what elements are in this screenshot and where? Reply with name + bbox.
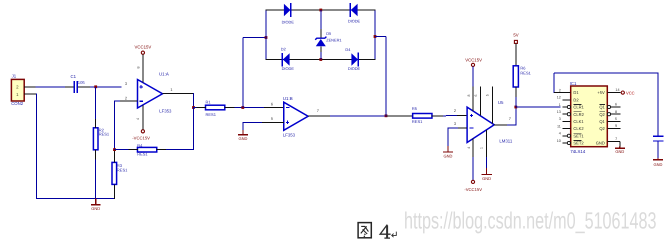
svg-text:3: 3 xyxy=(125,81,127,86)
op-amp U1:B LF353 xyxy=(284,102,308,130)
svg-text:3: 3 xyxy=(559,117,561,121)
resistor R4 xyxy=(137,143,157,157)
svg-text:11: 11 xyxy=(557,124,561,128)
diode D2 xyxy=(281,47,295,71)
pin IC1 left row6 xyxy=(563,128,571,130)
wire bridge left tap xyxy=(243,37,266,39)
svg-text:LF353: LF353 xyxy=(283,132,296,137)
svg-text:LF353: LF353 xyxy=(159,109,172,114)
svg-text:RES1: RES1 xyxy=(206,112,217,117)
wire bridge right vertical xyxy=(385,37,387,117)
pin U5.6 xyxy=(480,86,482,115)
capacitor C1 xyxy=(71,74,86,93)
svg-text:GND: GND xyxy=(654,162,663,167)
svg-text:4: 4 xyxy=(467,147,471,149)
pin U1A.1 out xyxy=(163,92,194,94)
svg-text:U1:A: U1:A xyxy=(159,72,169,77)
wire pin4 down xyxy=(472,157,474,180)
pin U5.5 xyxy=(492,86,494,123)
svg-text:8: 8 xyxy=(136,67,140,69)
pin R2 top xyxy=(95,119,97,128)
pin R1 left xyxy=(197,107,206,109)
diode D4 xyxy=(345,47,360,71)
junction right edge xyxy=(374,35,377,38)
svg-text:8: 8 xyxy=(615,110,617,114)
svg-text:3: 3 xyxy=(454,121,456,126)
op-amp U1:A LF353 xyxy=(138,80,163,109)
svg-text:1: 1 xyxy=(559,103,561,107)
ground GND3 xyxy=(486,168,488,175)
wire top rail xyxy=(266,9,376,11)
svg-text:D1: D1 xyxy=(573,90,579,95)
wire zener vertical xyxy=(320,10,322,30)
svg-text:DIODE: DIODE xyxy=(348,66,361,71)
svg-text:+5V: +5V xyxy=(597,90,605,95)
wire R2 to rail xyxy=(95,160,97,199)
pin IC1 right 5 xyxy=(607,120,620,122)
svg-text:DIODE: DIODE xyxy=(282,66,295,71)
svg-text:DIODE: DIODE xyxy=(348,18,361,23)
svg-text:RES1: RES1 xyxy=(520,71,531,76)
wire bridge left edge xyxy=(265,10,267,61)
wire R4 to node xyxy=(115,149,129,151)
caption figure 4 xyxy=(358,223,396,239)
svg-text:R1: R1 xyxy=(206,99,212,104)
pin U5.1 xyxy=(486,130,488,157)
pin IC1 left row8 xyxy=(563,142,568,144)
svg-text:74LS14: 74LS14 xyxy=(570,149,585,154)
pin IC1 right 9 xyxy=(607,128,620,130)
svg-text:VCC15V: VCC15V xyxy=(135,45,152,50)
svg-text:14: 14 xyxy=(615,88,619,92)
svg-text:GND: GND xyxy=(238,136,247,141)
wire pin1 down xyxy=(486,157,488,168)
svg-text:GND: GND xyxy=(91,206,100,211)
pin U5.3 stub xyxy=(458,127,467,129)
pin C1 left xyxy=(65,86,73,88)
wire bottom rail xyxy=(36,197,114,199)
zener D5 ZENER1 xyxy=(315,31,341,46)
pin IC1.14 xyxy=(607,92,620,94)
ground GND1 xyxy=(95,198,97,204)
pin U1B.5 stub xyxy=(262,121,284,123)
svg-text:SET2: SET2 xyxy=(573,141,584,146)
svg-text:-VCC15V: -VCC15V xyxy=(132,135,150,140)
wire U1B out xyxy=(330,115,387,117)
svg-text:1: 1 xyxy=(170,87,172,92)
ground GND4 xyxy=(447,146,449,152)
svg-text:ZENER1: ZENER1 xyxy=(326,37,341,42)
svg-text:U5: U5 xyxy=(498,100,504,105)
pin zener top xyxy=(320,29,322,38)
pin IC1 left row3 xyxy=(563,106,568,108)
power VCC IC1 xyxy=(621,90,634,95)
svg-text:RES1: RES1 xyxy=(99,132,110,137)
junction top mid xyxy=(319,9,322,12)
pin U1A.4 xyxy=(142,105,144,130)
wire U1A.2 corner xyxy=(115,100,121,102)
wire cap to gnd xyxy=(657,142,659,158)
wire junction to R1 xyxy=(194,107,197,109)
resistor R6 xyxy=(513,65,531,87)
diode D3 xyxy=(348,3,361,23)
pin U1A.8 xyxy=(142,54,144,82)
power VCC15V U1A xyxy=(135,45,152,55)
svg-text:IC1: IC1 xyxy=(570,81,577,86)
svg-text:VCC: VCC xyxy=(626,90,635,95)
capacitor bypass xyxy=(653,136,664,141)
svg-text:5: 5 xyxy=(486,94,490,96)
pin R6 bottom xyxy=(515,87,517,97)
svg-text:D5: D5 xyxy=(326,31,331,36)
comparator U5 LM311 xyxy=(467,107,494,142)
svg-text:Q2: Q2 xyxy=(599,112,605,117)
pin zener bottom xyxy=(320,46,322,53)
ground GND2 xyxy=(242,130,244,135)
pin IC1 left row2 xyxy=(563,99,571,101)
connector J1 CON2 xyxy=(11,74,24,107)
pin R1 right xyxy=(225,107,235,109)
pin IC1 left row1 xyxy=(563,92,571,94)
svg-text:GND: GND xyxy=(615,149,624,154)
svg-text:1: 1 xyxy=(479,147,483,149)
wire R5 to LM311 xyxy=(443,115,457,117)
svg-text:4: 4 xyxy=(136,118,140,120)
wire bridge right edge xyxy=(374,10,376,61)
pin IC1 left row7 xyxy=(563,135,568,137)
pin R5 right xyxy=(432,115,443,117)
junction bridge tap xyxy=(241,106,244,109)
svg-text:2: 2 xyxy=(125,95,127,100)
wire VCC to pin8 xyxy=(472,67,474,87)
wire C1 to U1A pin3 xyxy=(90,86,122,88)
wire feedback left xyxy=(166,149,194,151)
wire zener bottom xyxy=(320,52,322,60)
svg-text:CLR2: CLR2 xyxy=(573,112,584,117)
svg-text:https://blog.csdn.net/m0_51061: https://blog.csdn.net/m0_51061483 xyxy=(404,208,657,234)
pin IC1.7 xyxy=(607,141,620,143)
svg-text:105: 105 xyxy=(78,80,86,85)
pin IC1.2 stub xyxy=(554,92,571,94)
pin J1.2 xyxy=(24,86,36,88)
resistor R1 xyxy=(206,99,225,116)
pin IC1 left row4 xyxy=(563,113,568,115)
svg-text:RES1: RES1 xyxy=(412,119,423,124)
svg-text:J1: J1 xyxy=(12,74,17,79)
junction LM311 out xyxy=(514,106,517,109)
svg-text:CLK2: CLK2 xyxy=(573,126,584,131)
svg-text:R4: R4 xyxy=(137,143,143,148)
svg-text:CLR1: CLR1 xyxy=(573,105,584,110)
svg-text:5: 5 xyxy=(615,117,617,121)
svg-text:RES1: RES1 xyxy=(117,168,128,173)
pin U5.7 out xyxy=(494,124,507,126)
pin R6 top xyxy=(515,44,517,66)
svg-text:C1: C1 xyxy=(71,74,77,79)
power VCC15V U5 xyxy=(465,58,482,67)
svg-text:CLK1: CLK1 xyxy=(573,119,584,124)
wire D1 loop xyxy=(553,73,555,93)
junction input/R2 xyxy=(94,85,97,88)
svg-text:12: 12 xyxy=(557,96,561,100)
pin U5.4 xyxy=(472,139,474,157)
pin R2 bottom xyxy=(95,150,97,160)
resistor R5 xyxy=(412,106,432,124)
svg-text:6: 6 xyxy=(615,103,617,107)
svg-text:GND: GND xyxy=(444,154,453,159)
pin R4 right xyxy=(156,149,166,151)
svg-text:6: 6 xyxy=(271,101,273,106)
junction left edge xyxy=(265,36,268,39)
svg-text:2: 2 xyxy=(559,88,561,92)
svg-text:13: 13 xyxy=(557,110,561,114)
junction U1A out xyxy=(192,106,195,109)
pin IC1 left row5 xyxy=(563,120,571,122)
wire pin3 left xyxy=(448,127,458,129)
svg-text:Q2: Q2 xyxy=(599,126,605,131)
svg-text:R6: R6 xyxy=(520,65,526,70)
power -VCC15V U1A xyxy=(132,130,150,141)
svg-text:7: 7 xyxy=(509,116,511,121)
svg-text:Q1: Q1 xyxy=(599,119,605,124)
pin R5 left xyxy=(387,115,413,117)
svg-text:6: 6 xyxy=(474,94,478,96)
junction bottom mid xyxy=(319,58,322,61)
power -VCC15V U5 xyxy=(464,180,482,192)
wire R2 top xyxy=(95,87,97,119)
wire feedback down xyxy=(193,108,195,150)
diode D1 xyxy=(282,3,295,24)
pin IC1 right 8 xyxy=(607,113,610,116)
IC IC1 74LS14 xyxy=(571,86,608,147)
pin U5.8 xyxy=(472,86,474,110)
svg-text:VCC15V: VCC15V xyxy=(465,58,482,63)
pin U5.2 stub xyxy=(457,114,467,116)
svg-text:2: 2 xyxy=(454,108,456,113)
pin C1 right xyxy=(78,86,90,88)
svg-text:10: 10 xyxy=(557,139,561,143)
pin U1A.2 stub xyxy=(120,100,138,102)
wire pin5 corner xyxy=(243,121,262,123)
svg-text:D2: D2 xyxy=(573,97,579,102)
svg-text:4: 4 xyxy=(559,132,561,136)
ground GND6 xyxy=(657,158,659,160)
wire out corner xyxy=(507,124,516,126)
wire bridge right tap xyxy=(375,36,386,38)
svg-text:DIODE: DIODE xyxy=(282,19,295,24)
svg-text:7: 7 xyxy=(317,108,319,113)
svg-text:GND: GND xyxy=(482,176,491,181)
pin J1.1 xyxy=(24,93,36,95)
pin IC1 right 6 xyxy=(607,105,610,108)
svg-text:-VCC15V: -VCC15V xyxy=(464,187,482,192)
pin R3 top xyxy=(113,150,115,163)
ground GND5 xyxy=(619,147,621,149)
svg-text:CON2: CON2 xyxy=(11,101,24,106)
wire R1 to U1B xyxy=(235,107,265,109)
wire bottom rail xyxy=(266,59,376,61)
wire J1.1 down xyxy=(36,94,38,199)
svg-text:U1:B: U1:B xyxy=(283,96,293,101)
svg-text:SET1: SET1 xyxy=(573,133,584,138)
svg-text:8: 8 xyxy=(467,94,471,96)
resistor R2 xyxy=(93,127,110,149)
pin U1B.7 out xyxy=(308,115,330,117)
resistor R3 xyxy=(112,162,128,184)
junction bridge right tap xyxy=(385,114,388,117)
wire bridge left vertical xyxy=(242,38,244,108)
svg-text:Q1: Q1 xyxy=(599,105,605,110)
svg-text:D4: D4 xyxy=(345,47,351,52)
svg-text:7: 7 xyxy=(615,137,617,141)
svg-text:5: 5 xyxy=(271,116,273,121)
junction feedback node xyxy=(113,148,116,151)
svg-text:5V: 5V xyxy=(513,33,518,38)
wire node to IC1 xyxy=(516,106,561,108)
svg-text:RES1: RES1 xyxy=(137,152,148,157)
wire R6 to node xyxy=(515,97,517,107)
svg-text:R5: R5 xyxy=(412,106,418,111)
pin R4 left xyxy=(129,149,138,151)
svg-text:9: 9 xyxy=(615,124,617,128)
svg-text:LM311: LM311 xyxy=(499,139,512,144)
wire input xyxy=(36,86,66,88)
pin U1B.6 stub xyxy=(264,107,284,109)
svg-text:GND: GND xyxy=(596,141,605,146)
power 5V xyxy=(513,33,518,44)
wire out to junction xyxy=(193,93,195,108)
pin R3 bottom xyxy=(113,184,115,199)
svg-text:D2: D2 xyxy=(281,47,286,52)
